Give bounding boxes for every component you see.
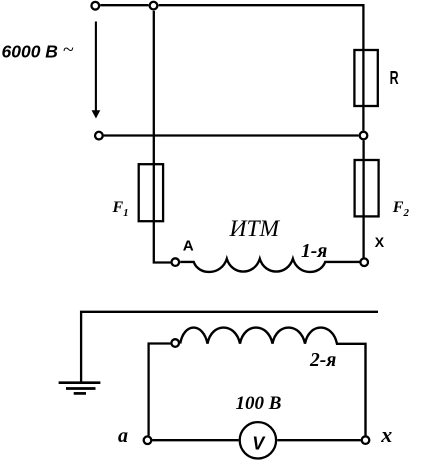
wire right branch down through F2 <box>362 140 364 257</box>
wire left branch down through F1 to node A <box>154 11 171 263</box>
svg-text:R: R <box>390 68 399 88</box>
svg-text:A: A <box>183 238 194 255</box>
svg-text:ИТМ: ИТМ <box>229 216 281 242</box>
svg-text:6000 В ~: 6000 В ~ <box>2 39 74 62</box>
terminal (second-row left supply) <box>95 132 103 140</box>
svg-text:x: x <box>380 422 392 447</box>
wire voltmeter to x <box>277 439 361 441</box>
wire top bus between terminals <box>100 4 148 6</box>
wire a to voltmeter <box>152 439 238 441</box>
svg-text:a: a <box>118 425 128 447</box>
ground <box>59 381 101 384</box>
svg-text:X: X <box>375 234 385 250</box>
wire top bus to right corner and down to R <box>159 5 364 130</box>
winding 2 (secondary 2-ya) <box>180 328 365 436</box>
resistor R <box>354 50 377 106</box>
terminal (secondary winding start) <box>171 339 179 347</box>
winding 1 (primary 1-ya) <box>180 259 360 272</box>
svg-text:F1: F1 <box>112 199 129 219</box>
node X terminal <box>360 258 368 266</box>
terminal (top tap to F1 branch) <box>150 2 158 10</box>
svg-text:100 В: 100 В <box>236 393 282 414</box>
node x terminal <box>362 436 370 444</box>
node A terminal <box>172 258 180 266</box>
svg-text:F2: F2 <box>392 199 410 219</box>
wire secondary box left side and top <box>149 344 171 436</box>
svg-text:1-я: 1-я <box>301 241 327 262</box>
wire grounded screen bus <box>81 312 378 383</box>
arrow (supply polarity, down) <box>95 22 97 111</box>
terminal (top-left supply) <box>91 2 99 10</box>
terminal (right, R to F2 junction) <box>360 132 368 140</box>
node a terminal <box>144 436 152 444</box>
voltmeter V1 <box>240 422 276 458</box>
fuse F2 <box>355 160 379 216</box>
svg-text:2-я: 2-я <box>309 350 336 371</box>
fuse F1 <box>139 164 163 221</box>
wire second bus <box>104 134 359 136</box>
svg-text:V: V <box>252 433 266 453</box>
